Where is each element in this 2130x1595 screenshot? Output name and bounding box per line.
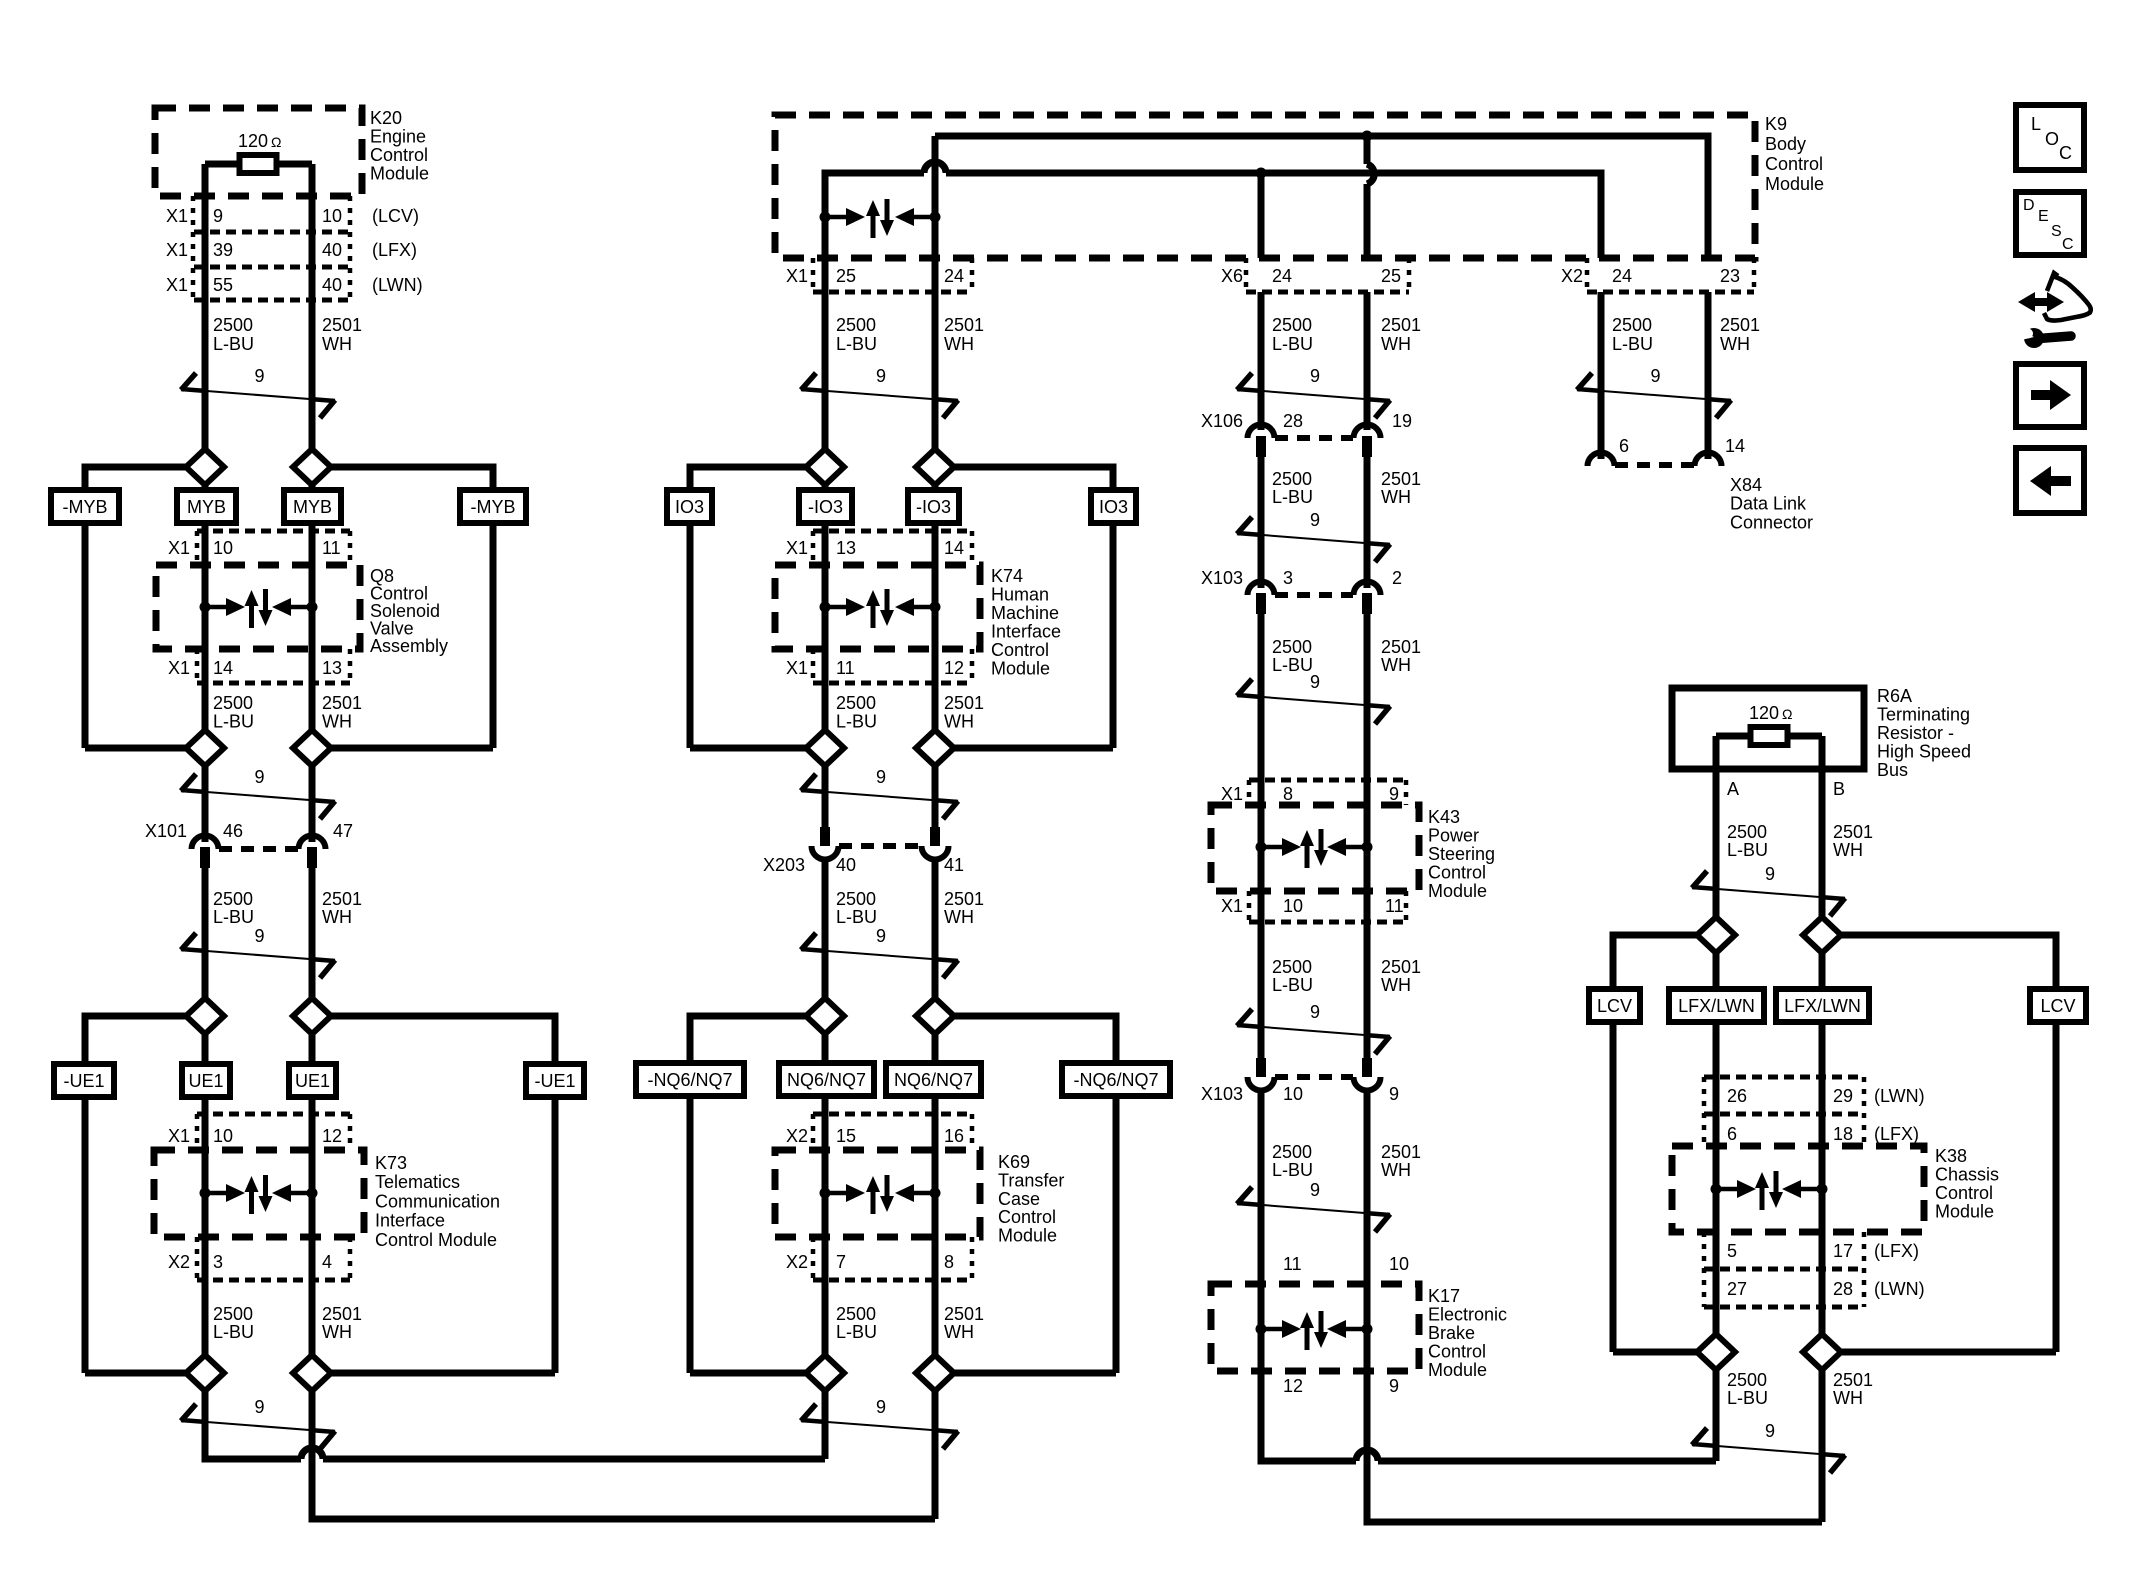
module Q8 Control Solenoid Valve Assembly (dashed outline) [156,565,360,649]
net box NQ6/NQ7 (left wire) [779,1063,874,1096]
svg-text:NQ6/NQ7: NQ6/NQ7 [894,1070,973,1090]
in-line connector X106 pin 19 [1354,425,1381,438]
wire 2500 L-BU bottom link to K38 column [1261,1371,1356,1461]
junction diamond on 2501 WH (below Q8) [293,730,331,766]
wire -MYB left loop down [82,523,89,748]
svg-text:-IO3: -IO3 [808,497,843,517]
svg-text:High Speed: High Speed [1877,742,1971,762]
wire 2501 WH below X6 [1364,292,1371,430]
svg-text:6: 6 [1727,1124,1737,1144]
svg-text:Control Module: Control Module [375,1230,497,1250]
svg-text:6: 6 [1619,436,1629,456]
svg-text:10: 10 [322,206,342,226]
svg-text:L-BU: L-BU [836,334,877,354]
wire 2500 L-BU from R6A pin A [1713,736,1720,917]
net box -MYB (right) [460,490,526,523]
svg-text:Telematics: Telematics [375,1172,460,1192]
module K38 Chassis Control Module (dashed outline) [1672,1146,1924,1232]
svg-text:IO3: IO3 [675,497,704,517]
svg-text:14: 14 [1725,436,1745,456]
transceiver symbol inside K73 [200,1188,211,1199]
junction diamond on 2500 L-BU (bottom right) [1697,1334,1735,1370]
svg-text:MYB: MYB [187,497,226,517]
in-line connector X103 pin 3 [1248,582,1275,596]
junction diamond on 2500 L-BU (LCV/LFX row) [1713,917,1720,1352]
svg-text:C: C [2059,143,2072,163]
junction diamond on 2501 WH (UE1 row) [309,1016,316,1373]
svg-text:2501: 2501 [1720,315,1760,335]
svg-text:9: 9 [254,1397,264,1417]
svg-text:Connector: Connector [1730,512,1813,532]
wire 2500 L-BU from K20 pin 9 down to first junction [202,164,209,450]
svg-text:WH: WH [1833,1388,1863,1408]
svg-text:9: 9 [876,1397,886,1417]
svg-text:2500: 2500 [1272,957,1312,977]
net box LFX/LWN (left wire) [1669,989,1764,1022]
svg-text:X1: X1 [786,658,808,678]
net box -IO3 (right wire) [908,490,959,523]
wire loop left -MYB bottom [85,745,186,752]
svg-text:11: 11 [1283,1254,1302,1274]
svg-text:L-BU: L-BU [836,1322,877,1342]
terminal connector X84 pin 14 [1695,453,1722,466]
svg-text:Control: Control [1935,1183,1993,1203]
wire branch to -MYB (right) [331,467,493,490]
wire 2500 L-BU below X101 [202,868,209,1016]
svg-text:WH: WH [1381,334,1411,354]
wire 2500 L-BU inside K9 up and right (bus to X6/X2) [825,173,924,450]
junction diamond on 2501 WH (MYB row) [309,450,316,748]
svg-text:2501: 2501 [322,1304,362,1324]
svg-text:2500: 2500 [1272,1142,1312,1162]
svg-text:2501: 2501 [322,693,362,713]
wire branch X6 24 down from L-BU bus [1258,173,1265,258]
connector pin row X1 13 / 14 (K74 top) [813,529,972,534]
svg-text:11: 11 [1385,896,1404,916]
transceiver symbol inside K17 [1256,1324,1267,1335]
svg-text:-MYB: -MYB [471,497,516,517]
junction diamond on 2500 L-BU (NQ row) [822,1016,829,1373]
svg-text:WH: WH [1381,975,1411,995]
connector pin row X1 10 / 12 (K73 top) [197,1112,350,1117]
svg-text:L-BU: L-BU [836,712,877,732]
net box UE1 (right wire) [289,1064,336,1097]
off-page reference 9 (left column, third) [181,949,335,961]
svg-text:9: 9 [876,366,886,386]
svg-text:120: 120 [1749,703,1779,723]
wire 2501 WH middle bottom drop [932,1391,939,1519]
svg-text:12: 12 [944,658,964,678]
off-page reference 9 (X6 column, fifth) [1237,1203,1390,1215]
svg-text:Case: Case [998,1189,1040,1209]
off-page reference 9 (X6 column, fourth) [1237,1025,1390,1037]
legend icon back arrow box [2016,448,2084,513]
svg-text:(LFX): (LFX) [372,240,417,260]
junction diamond on 2500 L-BU (MYB row) [202,450,209,748]
legend icon DESC box [2016,192,2084,255]
in-line connector X103 pin 10 (mirrored) [1256,1058,1266,1077]
svg-text:9: 9 [1310,1002,1320,1022]
wire -MYB right loop down [490,523,497,748]
off-page reference 9 (X6 column, third) [1237,695,1390,707]
svg-text:X1: X1 [166,206,188,226]
wire 2501 WH below X103 [1364,614,1371,780]
wire LCV left loop down [1610,1022,1617,1352]
svg-text:L-BU: L-BU [1272,655,1313,675]
wire NQ right loop down [1113,1096,1120,1373]
svg-text:L-BU: L-BU [1272,334,1313,354]
svg-text:Terminating: Terminating [1877,705,1970,725]
off-page reference 9 (K38 column bottom) [1692,1444,1845,1456]
svg-text:X2: X2 [786,1252,808,1272]
svg-text:2501: 2501 [944,315,984,335]
svg-text:12: 12 [1283,1376,1303,1396]
svg-text:-MYB: -MYB [63,497,108,517]
transceiver symbol inside Q8 [200,602,211,613]
svg-text:10: 10 [213,538,233,558]
svg-text:LCV: LCV [2040,996,2075,1016]
svg-text:2500: 2500 [836,315,876,335]
svg-text:LCV: LCV [1597,996,1632,1016]
wire 2501 WH from R6A pin B [1819,736,1826,917]
svg-text:9: 9 [876,767,886,787]
svg-text:WH: WH [944,907,974,927]
svg-text:2501: 2501 [1381,1142,1421,1162]
wire branch to -NQ6/NQ7 (left) [690,1016,806,1063]
off-page reference 9 (left column, bottom) [181,1420,335,1432]
svg-text:K9: K9 [1765,114,1787,134]
svg-text:UE1: UE1 [295,1071,330,1091]
svg-text:27: 27 [1727,1279,1747,1299]
junction diamond on 2501 WH (bottom left) [293,1355,331,1391]
svg-text:X1: X1 [786,266,808,286]
svg-text:X103: X103 [1201,1084,1243,1104]
svg-text:WH: WH [944,334,974,354]
svg-text:Bus: Bus [1877,760,1908,780]
wire loop IO3 left bottom [690,745,806,752]
wire 2501 WH through K43 [1364,780,1371,1058]
wire 2501 WH bottom link to K38 column [1367,1371,1822,1522]
svg-text:Module: Module [370,164,429,184]
wire 2500 L-BU below X106 [1258,457,1265,588]
svg-text:15: 15 [836,1126,856,1146]
svg-text:X2: X2 [168,1252,190,1272]
svg-text:WH: WH [1720,334,1750,354]
svg-text:Interface: Interface [991,622,1061,642]
svg-text:X1: X1 [166,275,188,295]
svg-text:L-BU: L-BU [1272,975,1313,995]
svg-text:LFX/LWN: LFX/LWN [1784,996,1861,1016]
wire loop IO3 right bottom [954,745,1113,752]
svg-text:(LFX): (LFX) [1874,1124,1919,1144]
resistor 120 ohm inside K20 [240,155,277,173]
svg-text:L-BU: L-BU [213,334,254,354]
connector pin row X1 14 / 13 (Q8 bottom) [195,649,200,683]
wire 2501 WH middle column from K9 bus corner [932,136,939,450]
wire 2501 WH through K17 [1364,1284,1371,1371]
svg-text:40: 40 [836,855,856,875]
junction dot of L-BU bus at X6 branch [1256,168,1267,179]
svg-text:10: 10 [1283,896,1303,916]
svg-text:Steering: Steering [1428,844,1495,864]
in-line connector X101 pin 47 [299,836,326,850]
wire 2501 WH bottom link to middle column [312,1391,935,1519]
svg-text:O: O [2045,129,2059,149]
svg-text:Module: Module [1765,174,1824,194]
svg-text:28: 28 [1833,1279,1853,1299]
wire loop NQ left bottom [690,1370,806,1377]
svg-text:X1: X1 [168,538,190,558]
svg-text:L-BU: L-BU [213,712,254,732]
svg-text:K43: K43 [1428,807,1460,827]
transceiver symbol inside K9 [820,212,831,223]
svg-text:C: C [2062,236,2074,253]
svg-text:Interface: Interface [375,1211,445,1231]
svg-text:2501: 2501 [944,693,984,713]
svg-text:K69: K69 [998,1152,1030,1172]
legend icon LOC box [2016,105,2084,170]
net box UE1 (left wire) [182,1064,230,1097]
svg-text:L-BU: L-BU [213,1322,254,1342]
svg-text:Module: Module [998,1226,1057,1246]
off-page reference 9 (left column, second) [181,790,335,802]
svg-text:Chassis: Chassis [1935,1165,1999,1185]
terminal connector X84 pin 6 [1588,453,1615,466]
junction diamond on 2500 L-BU (bottom middle) [806,1355,844,1391]
net box -NQ6/NQ7 (left) [636,1063,744,1096]
svg-text:24: 24 [944,266,964,286]
svg-text:Data Link: Data Link [1730,494,1807,514]
junction diamond on 2500 L-BU (bottom left) [186,1355,224,1391]
svg-text:L-BU: L-BU [213,907,254,927]
module K20 Engine Control Module (dashed outline) [155,108,362,196]
connector X103 lower link (dashed) [1275,1074,1353,1080]
in-line connector X203 pin 40 (mirrored) [820,827,830,846]
connector pin row X1 10 / 11 (Q8 top) [197,529,350,534]
svg-text:9: 9 [1310,1180,1320,1200]
svg-text:WH: WH [1833,840,1863,860]
svg-text:9: 9 [1310,510,1320,530]
svg-text:Human: Human [991,585,1049,605]
svg-text:R6A: R6A [1877,686,1912,706]
svg-text:WH: WH [322,1322,352,1342]
svg-text:9: 9 [254,767,264,787]
hop of 2500 link over 2501 wire [301,1448,323,1459]
svg-text:Electronic: Electronic [1428,1305,1507,1325]
svg-text:2500: 2500 [836,889,876,909]
svg-text:Brake: Brake [1428,1323,1475,1343]
svg-text:X203: X203 [763,855,805,875]
junction dot of WH bus at X6 branch [1362,131,1373,142]
svg-text:39: 39 [213,240,233,260]
svg-text:9: 9 [1389,784,1399,804]
svg-text:9: 9 [1389,1084,1399,1104]
module K43 Power Steering Control Module (dashed outline) [1211,805,1419,891]
wire LCV right loop down [2053,1022,2060,1352]
svg-text:X2: X2 [786,1126,808,1146]
module K73 Telematics Communication Interface Control Module (dashed outline) [154,1150,364,1237]
wire 2501 WH from K20 pin 10 down to first junction [309,164,316,450]
net box MYB (left wire) [177,490,236,523]
junction diamond on 2501 WH (below K74) [916,730,954,766]
wire 2500 L-BU middle bottom drop [822,1391,829,1459]
connector pin row X2 24 / 23 (K9 to data link connector) [1585,258,1590,292]
svg-text:Engine: Engine [370,127,426,147]
svg-text:A: A [1727,779,1739,799]
svg-text:X103: X103 [1201,568,1243,588]
net box LCV (left) [1589,989,1640,1022]
wire 2500 L-BU below lower X103 [1258,1089,1265,1284]
svg-text:26: 26 [1727,1086,1747,1106]
connector pin row X2 3 / 4 (K73 bottom) [195,1237,200,1280]
connector pin rows of K38 (top) [1704,1075,1864,1080]
svg-text:2501: 2501 [1833,822,1873,842]
wire 2500 L-BU below X6 [1258,292,1265,430]
svg-text:Control: Control [1428,863,1486,883]
svg-text:E: E [2038,208,2049,225]
svg-text:2500: 2500 [836,1304,876,1324]
svg-text:UE1: UE1 [188,1071,223,1091]
svg-text:3: 3 [213,1252,223,1272]
wire branch to IO3 (right) [954,467,1113,490]
svg-text:Control: Control [1765,154,1823,174]
svg-text:L-BU: L-BU [1612,334,1653,354]
svg-text:L-BU: L-BU [1727,840,1768,860]
svg-text:14: 14 [944,538,964,558]
svg-text:24: 24 [1612,266,1632,286]
svg-text:17: 17 [1833,1241,1853,1261]
svg-text:IO3: IO3 [1099,497,1128,517]
junction diamond on 2501 WH (LCV/LFX row) [1819,917,1826,1352]
svg-text:9: 9 [1310,366,1320,386]
connector pin row X1 10 / 11 (K43 bottom) [1247,891,1252,922]
connector X106 link (dashed) [1275,435,1353,441]
svg-text:-NQ6/NQ7: -NQ6/NQ7 [1073,1070,1158,1090]
wire branch to -UE1 (left) [85,1016,186,1064]
svg-text:WH: WH [1381,655,1411,675]
connector pin row X1 25 / 24 (K9 to middle column) [811,258,816,292]
resistor module R6A Terminating Resistor - High Speed Bus (solid box) [1672,688,1864,769]
svg-text:X101: X101 [145,821,187,841]
module K9 Body Control Module (dashed outline) [775,115,1755,258]
svg-text:2500: 2500 [836,693,876,713]
svg-text:28: 28 [1283,411,1303,431]
svg-text:9: 9 [254,926,264,946]
svg-text:14: 14 [213,658,233,678]
svg-text:19: 19 [1392,411,1412,431]
wire 2501 WH below X106 [1364,457,1371,588]
svg-text:X1: X1 [168,1126,190,1146]
wire 2500 L-BU through K17 [1258,1284,1265,1371]
wire 2500 L-BU drop to bottom link [1713,1370,1720,1461]
svg-text:-UE1: -UE1 [63,1071,104,1091]
svg-text:2501: 2501 [1381,957,1421,977]
wire 2501 WH below X101 [309,868,316,1016]
wire 2501 WH below lower X103 [1364,1089,1371,1284]
wire NQ left loop down [687,1096,694,1373]
wire branch to IO3 (left) [690,467,806,490]
svg-text:11: 11 [322,538,341,558]
svg-text:9: 9 [1765,864,1775,884]
junction diamond on 2501 WH (IO3 row) [932,450,939,748]
svg-text:L-BU: L-BU [1272,1160,1313,1180]
svg-text:Module: Module [1428,1360,1487,1380]
svg-text:2501: 2501 [322,315,362,335]
module K74 Human Machine Interface Control Module (dashed outline) [775,565,980,649]
junction diamond on 2501 WH (bottom right) [1803,1334,1841,1370]
svg-text:K20: K20 [370,108,402,128]
svg-text:D: D [2023,197,2035,214]
net box -NQ6/NQ7 (right) [1062,1063,1170,1096]
transceiver symbol inside K38 [1711,1184,1722,1195]
junction diamond on 2500 L-BU (UE1 row) [202,1016,209,1373]
svg-text:WH: WH [944,712,974,732]
wire 2501 WH drop to bottom link [1819,1370,1826,1522]
resistor 120 ohm inside R6A [1751,727,1788,745]
off-page reference 9 (R6A column) [1692,887,1845,899]
svg-text:Body: Body [1765,134,1806,154]
svg-text:Control: Control [370,145,428,165]
svg-text:X1: X1 [1221,896,1243,916]
svg-text:2501: 2501 [1381,315,1421,335]
wire 2500 L-BU below X2 [1598,292,1605,459]
wire loop NQ right bottom [954,1370,1116,1377]
svg-text:WH: WH [322,907,352,927]
svg-text:29: 29 [1833,1086,1853,1106]
net box LCV (right) [2030,989,2086,1022]
svg-text:12: 12 [322,1126,342,1146]
connector pin rows of K20 (X1 variants) [191,196,196,300]
wire X2 24 down from L-BU bus corner [1598,173,1605,258]
svg-text:Machine: Machine [991,603,1059,623]
off-page reference 9 (X6 column, first) [1237,389,1390,401]
svg-text:L-BU: L-BU [1727,1388,1768,1408]
svg-text:13: 13 [836,538,856,558]
wire 2500 L-BU below X103 [1258,614,1265,780]
connector X101 link (dashed) [219,846,298,852]
svg-text:3: 3 [1283,568,1293,588]
svg-text:-NQ6/NQ7: -NQ6/NQ7 [647,1070,732,1090]
svg-text:X84: X84 [1730,475,1762,495]
svg-text:K17: K17 [1428,1286,1460,1306]
svg-text:LFX/LWN: LFX/LWN [1678,996,1755,1016]
wire -UE1 right loop down [552,1097,559,1373]
svg-text:2501: 2501 [1381,469,1421,489]
svg-text:X106: X106 [1201,411,1243,431]
svg-text:7: 7 [836,1252,846,1272]
svg-text:Control: Control [998,1207,1056,1227]
svg-text:47: 47 [333,821,353,841]
svg-text:(LCV): (LCV) [372,206,419,226]
svg-text:2501: 2501 [322,889,362,909]
junction diamond on 2501 WH (bottom middle) [916,1355,954,1391]
wire jumper inside R6A (resistor leads) [1716,733,1822,740]
svg-text:2500: 2500 [213,889,253,909]
svg-text:(LWN): (LWN) [372,275,423,295]
junction diamond on 2500 L-BU (IO3 row) [822,450,829,748]
svg-text:L: L [2031,114,2041,134]
svg-text:9: 9 [1310,672,1320,692]
svg-text:2500: 2500 [213,693,253,713]
svg-text:2500: 2500 [1272,637,1312,657]
legend icon vehicle data / repair (arrows, car, wrench) [2032,298,2050,306]
svg-text:Ω: Ω [271,134,281,150]
svg-text:X2: X2 [1561,266,1583,286]
wire jumper inside K20 (resistor leads) [205,161,312,168]
svg-text:WH: WH [1381,1160,1411,1180]
junction diamond on 2501 WH (NQ row) [932,1016,939,1373]
wire branch X6 25 down from WH bus (hops over L-BU bus) [1364,136,1371,164]
